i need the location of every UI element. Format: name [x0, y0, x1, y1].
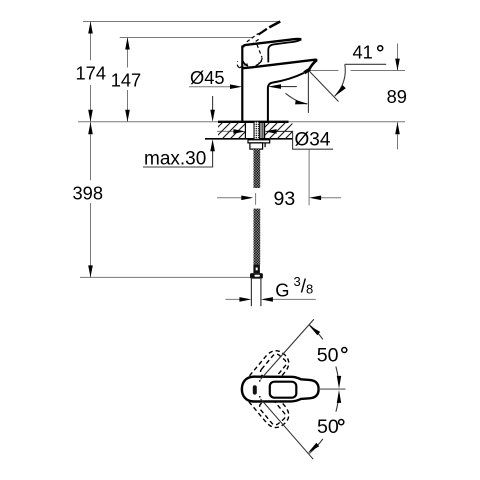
svg-text:41: 41 [353, 42, 373, 63]
svg-text:Ø34: Ø34 [295, 130, 331, 151]
svg-text:8: 8 [306, 282, 313, 297]
svg-text:147: 147 [111, 70, 142, 91]
svg-text:398: 398 [73, 183, 104, 204]
svg-text:93: 93 [274, 188, 296, 210]
svg-text:50: 50 [317, 345, 339, 367]
svg-text:89: 89 [387, 86, 407, 107]
svg-text:174: 174 [76, 63, 107, 84]
svg-text:50: 50 [317, 416, 339, 438]
svg-text:G: G [275, 279, 289, 300]
svg-text:Ø45: Ø45 [190, 67, 225, 88]
svg-text:max.30: max.30 [144, 149, 206, 170]
svg-text:3: 3 [294, 274, 301, 289]
